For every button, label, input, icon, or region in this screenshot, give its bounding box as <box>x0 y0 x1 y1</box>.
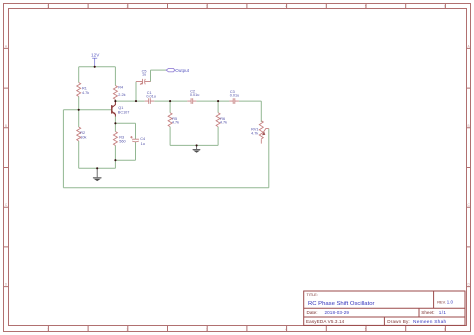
svg-text:0.01u: 0.01u <box>190 93 200 97</box>
svg-text:4.7k: 4.7k <box>251 132 258 136</box>
svg-text:2.2k: 2.2k <box>118 93 125 97</box>
svg-text:BC107: BC107 <box>118 111 130 115</box>
svg-text:RC Phase Shift Oscillator: RC Phase Shift Oscillator <box>308 301 374 307</box>
svg-text:6: 6 <box>444 4 446 8</box>
svg-text:3: 3 <box>206 4 208 8</box>
svg-text:B: B <box>5 124 7 128</box>
svg-text:Sheet:: Sheet: <box>421 310 434 315</box>
svg-text:4.7k: 4.7k <box>220 120 227 124</box>
svg-text:1u: 1u <box>142 73 146 77</box>
svg-text:1/1: 1/1 <box>439 310 447 315</box>
svg-text:Date:: Date: <box>307 310 318 315</box>
svg-text:B: B <box>468 124 470 128</box>
svg-text:4: 4 <box>285 328 287 332</box>
svg-text:REV.: REV. <box>437 299 446 304</box>
svg-text:1: 1 <box>47 4 49 8</box>
svg-text:10k: 10k <box>80 135 86 139</box>
svg-text:1: 1 <box>47 328 49 332</box>
svg-text:R4: R4 <box>118 85 123 89</box>
svg-text:12V: 12V <box>91 52 100 57</box>
svg-text:2: 2 <box>127 4 129 8</box>
svg-text:Output: Output <box>175 68 190 73</box>
svg-text:6: 6 <box>444 328 446 332</box>
svg-text:0.01u: 0.01u <box>230 94 240 98</box>
svg-text:Nemeen Shah: Nemeen Shah <box>413 319 446 325</box>
svg-text:1.0: 1.0 <box>447 299 454 304</box>
svg-text:Q1: Q1 <box>118 106 123 110</box>
svg-text:Drawn By:: Drawn By: <box>387 319 410 324</box>
svg-text:4.7k: 4.7k <box>82 91 89 95</box>
svg-text:4.7k: 4.7k <box>172 120 179 124</box>
svg-text:TITLE:: TITLE: <box>307 293 318 297</box>
svg-text:1u: 1u <box>141 142 145 146</box>
svg-text:0.01u: 0.01u <box>146 94 156 98</box>
svg-text:5: 5 <box>365 328 367 332</box>
svg-text:3: 3 <box>206 328 208 332</box>
svg-text:4: 4 <box>285 4 287 8</box>
svg-text:EasyEDA V5.3.14: EasyEDA V5.3.14 <box>306 319 345 324</box>
svg-text:5: 5 <box>365 4 367 8</box>
svg-text:C4: C4 <box>140 137 145 141</box>
svg-text:2: 2 <box>127 328 129 332</box>
svg-text:2018-03-29: 2018-03-29 <box>325 310 350 315</box>
svg-text:560: 560 <box>119 140 125 144</box>
